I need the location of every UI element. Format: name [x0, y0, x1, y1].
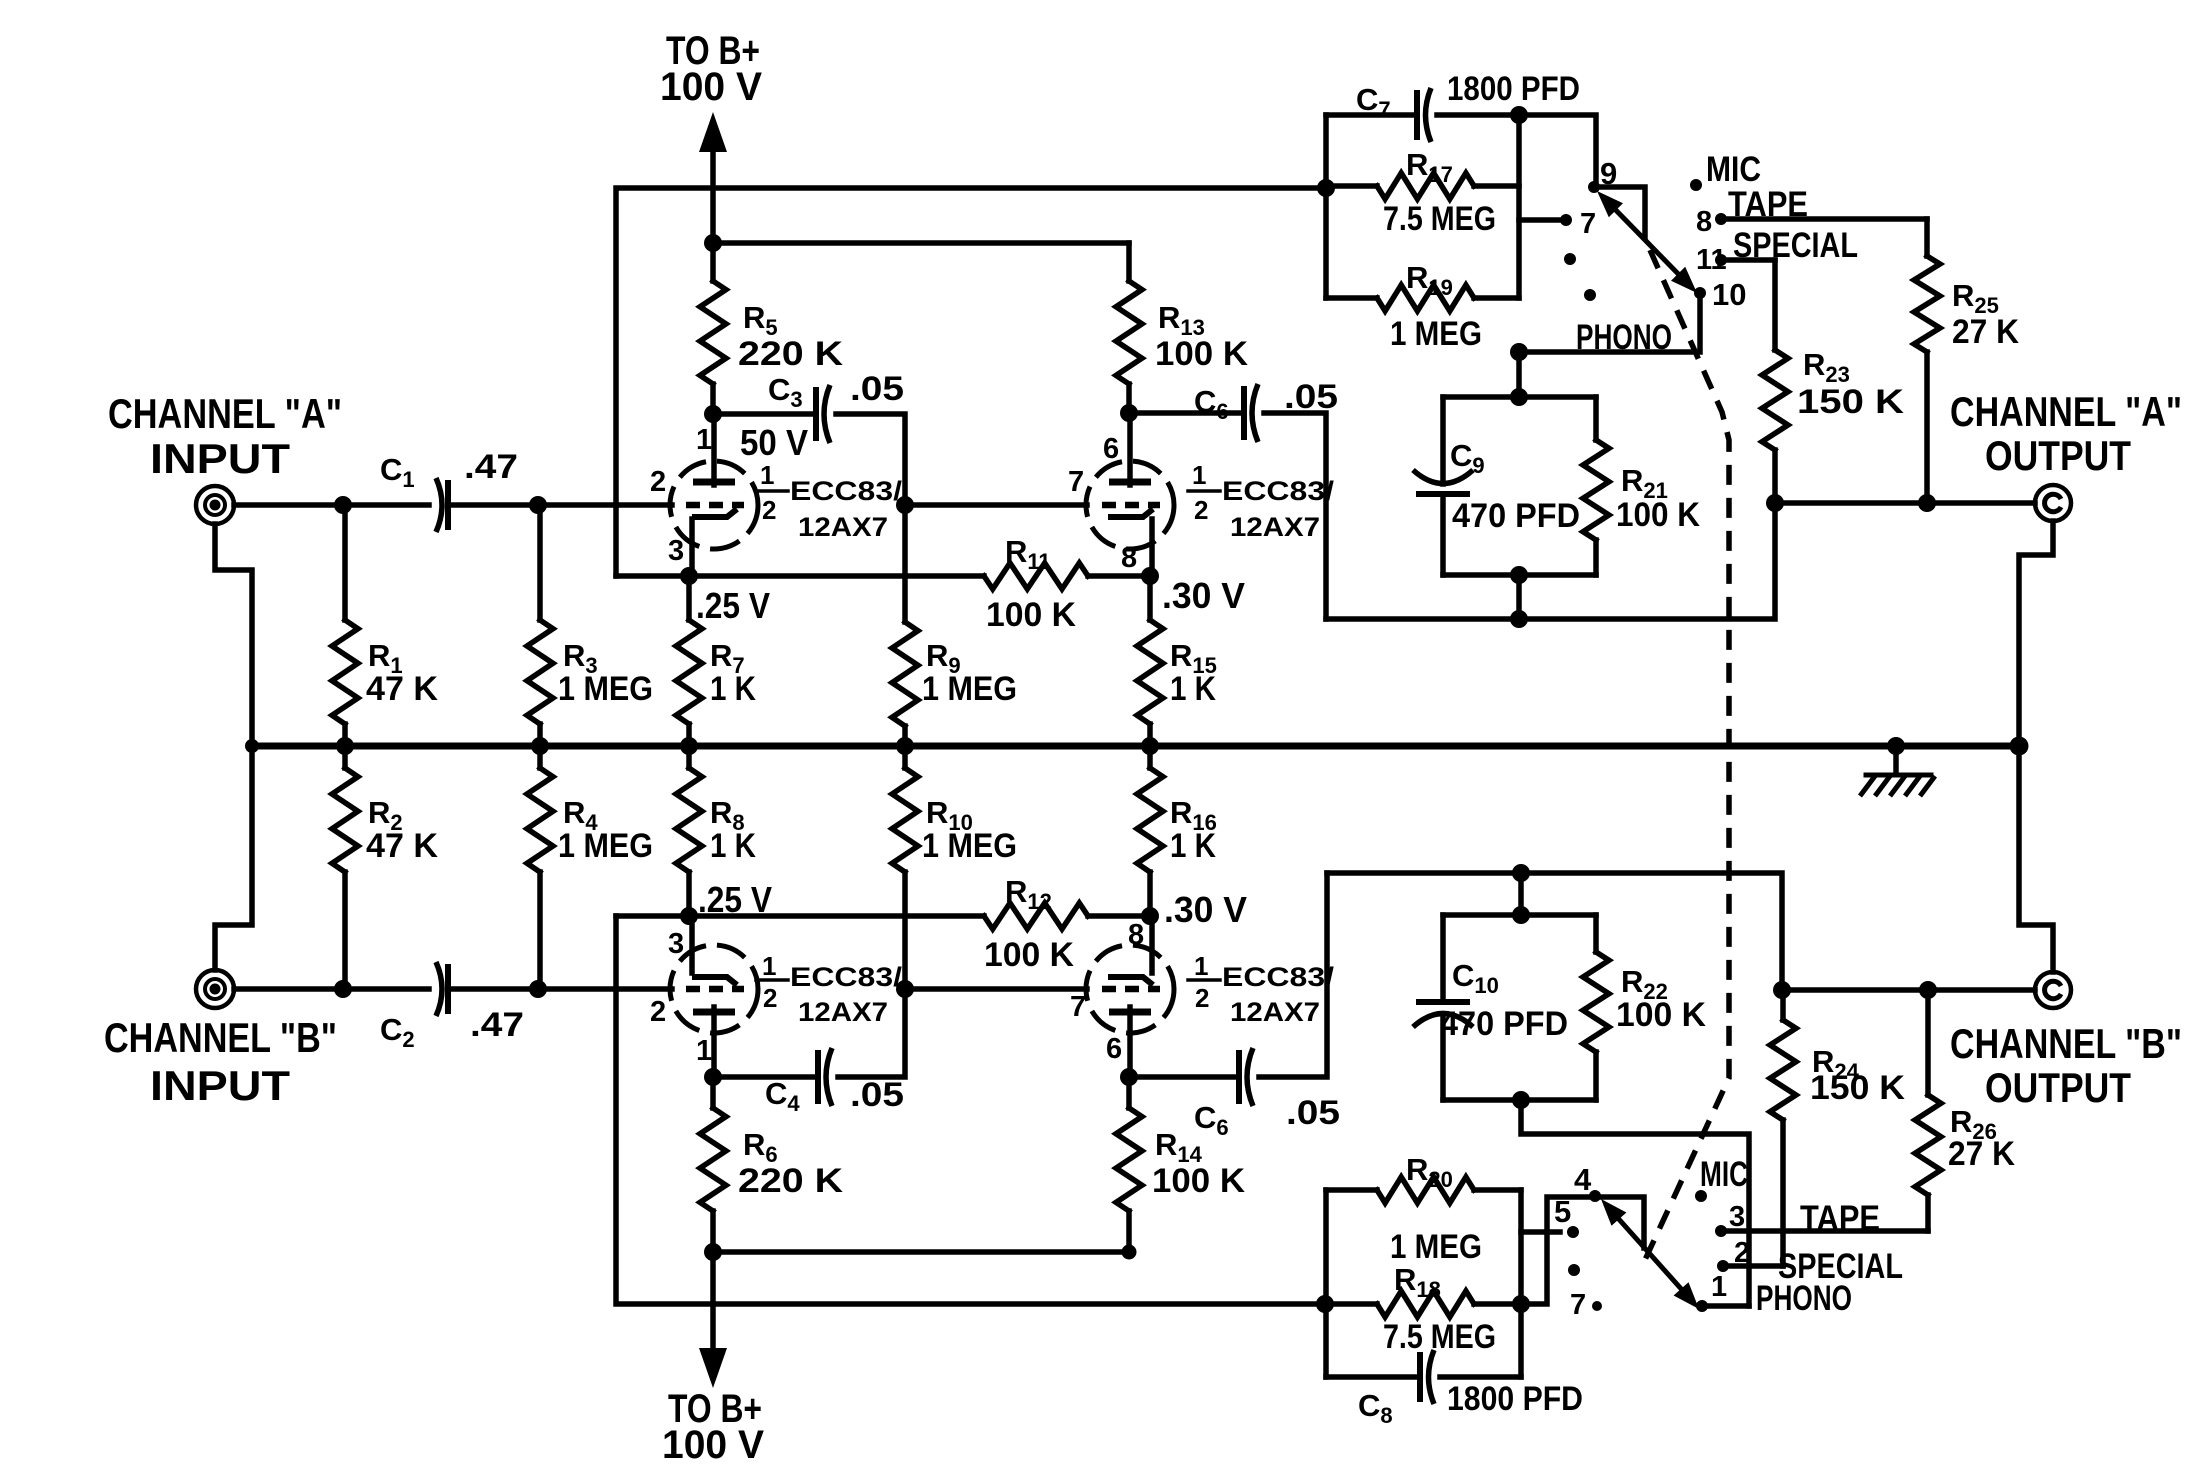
svg-text:1: 1	[762, 951, 776, 981]
wire input A to C1	[234, 502, 429, 508]
svg-text:7.5 MEG: 7.5 MEG	[1383, 200, 1496, 238]
wire V4 plate lead	[1127, 1007, 1133, 1077]
svg-text:1 K: 1 K	[710, 827, 756, 865]
wire ground bus	[252, 743, 2019, 750]
wire network A left rail	[1323, 115, 1329, 298]
resistor R18 7.5MEG	[1326, 1301, 1377, 1307]
svg-text:7: 7	[1068, 466, 1084, 498]
connector J4 channel B output	[2035, 972, 2071, 1008]
svg-text:1 MEG: 1 MEG	[922, 670, 1017, 708]
resistor R2 47K	[342, 746, 348, 768]
wire R18 to contact 4 and wiper	[1521, 1197, 1644, 1304]
node C10 box bottom	[1512, 1091, 1530, 1109]
node R18 right junction	[1512, 1295, 1530, 1313]
svg-text:2: 2	[1195, 983, 1209, 1013]
switch S1A contact 11 SPECIAL	[1715, 254, 1727, 266]
wire C2 to tube V3 grid	[448, 986, 672, 992]
resistor R9 1MEG	[902, 505, 908, 622]
wire output row A	[1775, 500, 2035, 506]
resistor R11 100K	[984, 563, 1088, 589]
wire V1 cathode lead	[689, 519, 695, 576]
wire top feedback rail	[616, 188, 1326, 576]
svg-text:1: 1	[1192, 460, 1206, 490]
resistor R15 1K	[1147, 576, 1153, 620]
svg-text:OUTPUT: OUTPUT	[1985, 432, 2131, 479]
svg-text:100 K: 100 K	[1616, 996, 1706, 1034]
svg-text:7: 7	[1570, 1289, 1586, 1321]
wire V4 cathode lead	[1149, 916, 1155, 973]
wire SPECIAL A	[1721, 257, 1775, 263]
wire upper row B	[1327, 873, 1782, 990]
wire lower row A	[1326, 503, 1775, 619]
switch S1B wiper arrow	[1608, 1207, 1692, 1301]
wire C4 to V4 grid node	[838, 989, 905, 1077]
wire contact 9 to wiper	[1594, 187, 1645, 238]
svg-text:50 V: 50 V	[740, 422, 808, 463]
svg-text:1 MEG: 1 MEG	[1390, 1228, 1482, 1266]
node R26 output junction	[1919, 981, 1937, 999]
wire output A shield jog	[2019, 521, 2053, 746]
switch S1A contact 10 PHONO	[1694, 287, 1706, 299]
svg-text:6: 6	[1103, 433, 1119, 465]
svg-text:1 MEG: 1 MEG	[558, 670, 653, 708]
svg-text:10: 10	[1712, 277, 1746, 312]
node R24 output junction	[1773, 981, 1791, 999]
tube V3 1/2 ECC83/12AX7	[670, 945, 758, 1033]
svg-text:2: 2	[650, 466, 666, 498]
wire V2 plate lead	[1127, 414, 1133, 485]
svg-text:2: 2	[650, 996, 666, 1028]
svg-text:27 K: 27 K	[1948, 1135, 2015, 1173]
svg-text:1 MEG: 1 MEG	[922, 827, 1017, 865]
wire network B right rail	[1518, 1190, 1524, 1377]
switch S1A contact MIC	[1690, 179, 1702, 191]
svg-text:2: 2	[762, 495, 776, 525]
node PHONO stem A	[1510, 343, 1528, 361]
switch S1B contact 4	[1589, 1190, 1601, 1202]
wire TAPE A	[1721, 216, 1927, 222]
svg-text:100 K: 100 K	[1616, 496, 1700, 534]
node C10 box top	[1512, 906, 1530, 924]
resistor R22 100K	[1593, 915, 1599, 952]
wire C10 box top side	[1443, 912, 1596, 918]
node B+ bottom junction	[704, 1243, 722, 1261]
svg-text:PHONO: PHONO	[1756, 1279, 1852, 1318]
svg-text:ECC83/: ECC83/	[1222, 476, 1335, 506]
svg-text:OUTPUT: OUTPUT	[1985, 1064, 2131, 1111]
wire bottom feedback rail	[616, 916, 1325, 1304]
svg-text:47 K: 47 K	[366, 827, 438, 865]
svg-text:CHANNEL "B": CHANNEL "B"	[104, 1014, 337, 1061]
svg-text:7: 7	[1580, 208, 1596, 240]
wire TAPE B	[1721, 1228, 1928, 1234]
resistor R14 100K	[1126, 1077, 1132, 1108]
switch S1B contact 1 PHONO	[1696, 1300, 1708, 1312]
switch S1A spare contacts	[1564, 253, 1576, 265]
node feedback rail / network A junction	[1317, 179, 1335, 197]
node V2 plate pin 6 junction	[1120, 404, 1138, 422]
wire grid V4	[905, 986, 1087, 992]
tube V1 1/2 ECC83/12AX7	[670, 461, 758, 549]
switch S1B contact 2 SPECIAL	[1717, 1260, 1729, 1272]
node ground junctions	[245, 739, 259, 753]
svg-text:100 V: 100 V	[660, 65, 762, 109]
svg-text:6: 6	[1106, 1033, 1122, 1065]
wire network B left rail	[1323, 1190, 1329, 1377]
svg-text:47 K: 47 K	[366, 670, 438, 708]
wire V1 plate lead	[711, 414, 717, 485]
svg-text:.05: .05	[850, 1076, 904, 1114]
wire stub to contact 7	[1519, 217, 1558, 223]
svg-text:220 K: 220 K	[738, 335, 844, 373]
tube V2 1/2 ECC83/12AX7	[1086, 461, 1174, 549]
node upper row B / C10 stem	[1512, 864, 1530, 882]
svg-text:3: 3	[1729, 1201, 1745, 1233]
svg-text:470 PFD: 470 PFD	[1440, 1005, 1568, 1043]
svg-text:470 PFD: 470 PFD	[1452, 497, 1580, 535]
resistor R19 1MEG	[1326, 295, 1377, 301]
svg-text:.47: .47	[470, 1006, 524, 1044]
switch S1A contact 8 TAPE	[1715, 213, 1727, 225]
ground symbol	[1893, 746, 1899, 772]
svg-text:CHANNEL "A": CHANNEL "A"	[108, 390, 342, 437]
node B+ top junction	[704, 234, 722, 252]
svg-text:220 K: 220 K	[738, 1162, 844, 1200]
resistor R7 1K	[686, 576, 692, 620]
wire stub to contact 5	[1521, 1229, 1560, 1235]
wire plate V4 to C6	[1129, 1074, 1239, 1080]
resistor R21 100K	[1593, 397, 1599, 440]
svg-text:MIC: MIC	[1706, 150, 1761, 189]
node input A junction	[334, 496, 352, 514]
capacitor C6 .05 (channel A)	[1241, 386, 1247, 440]
svg-text:12AX7: 12AX7	[798, 997, 888, 1027]
wire contact 1 stub	[1702, 1303, 1749, 1309]
wire C6 to lower row A	[1264, 413, 1326, 619]
wire plate V3 to C4	[713, 1074, 818, 1080]
svg-text:4: 4	[1574, 1162, 1592, 1197]
wire B+ row to R13	[713, 240, 1129, 246]
switch S1A contact 7	[1560, 214, 1572, 226]
svg-text:100 K: 100 K	[986, 596, 1076, 634]
svg-text:.25 V: .25 V	[698, 879, 772, 920]
wire plate V2 to C6	[1129, 410, 1244, 416]
wire C10 box stem top	[1518, 873, 1524, 915]
resistor R12 100K	[984, 903, 1088, 929]
wire C10 box bottom side	[1443, 1097, 1596, 1103]
svg-text:8: 8	[1696, 206, 1712, 238]
wire C9 box top	[1443, 394, 1596, 400]
svg-text:3: 3	[668, 928, 684, 960]
resistor R1 47K	[342, 505, 348, 620]
capacitor C9 470PFD	[1440, 397, 1446, 484]
svg-text:1: 1	[696, 424, 712, 456]
wire R11 to V2 cathode	[1088, 573, 1150, 579]
capacitor C4 .05	[815, 1050, 821, 1104]
capacitor C7 1800PFD	[1326, 112, 1417, 118]
switch S1B contact 3 TAPE	[1715, 1225, 1727, 1237]
node lower row A / C9 stem	[1510, 610, 1528, 628]
wire output B shield jog	[2019, 746, 2053, 972]
svg-text:.30 V: .30 V	[1164, 889, 1247, 930]
wire SPECIAL B	[1723, 1263, 1783, 1269]
node R25 output junction	[1918, 494, 1936, 512]
svg-text:ECC83/: ECC83/	[1222, 962, 1335, 992]
wire C6 to upper row B	[1259, 873, 1327, 1077]
connector J2 channel B input	[196, 970, 234, 1008]
wire C1 to tube V1 grid	[448, 502, 672, 508]
node V4 grid junction	[896, 980, 914, 998]
capacitor C8 1800PFD	[1326, 1374, 1420, 1380]
svg-text:7.5 MEG: 7.5 MEG	[1383, 1318, 1496, 1356]
wire C10 box to PHONO B	[1521, 1100, 1749, 1306]
switch gang dashed link	[1644, 250, 1729, 1262]
wire grid V2	[905, 502, 1087, 508]
svg-text:1 K: 1 K	[1170, 827, 1216, 865]
node R3 junction	[529, 496, 547, 514]
capacitor C2	[445, 964, 451, 1014]
svg-text:2: 2	[763, 983, 777, 1013]
wire V3 plate lead	[711, 1007, 717, 1077]
wire input B shield jog	[215, 746, 252, 970]
svg-text:100 K: 100 K	[984, 936, 1074, 974]
svg-text:INPUT: INPUT	[150, 435, 290, 482]
resistor R4 1MEG	[537, 746, 543, 768]
node R23 output junction	[1766, 494, 1784, 512]
resistor R6 220K	[710, 1077, 716, 1108]
connector J3 channel A output	[2035, 485, 2071, 521]
node input B junction	[334, 980, 352, 998]
resistor R13 100K	[1126, 243, 1132, 281]
wire C9 box stem to lower row	[1516, 575, 1522, 619]
tube V4 1/2 ECC83/12AX7	[1086, 945, 1174, 1033]
switch S1B contact 5	[1567, 1226, 1579, 1238]
svg-text:5: 5	[1554, 1194, 1571, 1229]
svg-text:2: 2	[1194, 495, 1208, 525]
svg-text:INPUT: INPUT	[150, 1062, 290, 1109]
svg-text:1 MEG: 1 MEG	[558, 827, 653, 865]
svg-text:1: 1	[1711, 1271, 1727, 1303]
resistor R24 150K	[1780, 1120, 1786, 1266]
svg-text:1 K: 1 K	[1170, 670, 1216, 708]
svg-text:ECC83/: ECC83/	[790, 476, 903, 506]
resistor R16 1K	[1147, 746, 1153, 768]
switch S1A contact 9	[1588, 181, 1600, 193]
wire V2 cathode lead	[1149, 519, 1155, 576]
resistor R23 150K	[1772, 260, 1778, 350]
svg-text:.25 V: .25 V	[696, 585, 770, 626]
svg-text:12AX7: 12AX7	[1230, 512, 1320, 542]
node V2 cathode pin 8 (.30V)	[1141, 567, 1159, 585]
capacitor C3 .05	[813, 387, 819, 441]
resistor R8 1K	[686, 746, 692, 768]
svg-text:1: 1	[696, 1035, 712, 1067]
node V4 plate pin 6 junction	[1120, 1068, 1138, 1086]
svg-text:27 K: 27 K	[1952, 313, 2019, 351]
svg-text:12AX7: 12AX7	[798, 512, 888, 542]
node V4 cathode pin 8 (.30V)	[1141, 907, 1159, 925]
node C9 box bottom	[1510, 566, 1528, 584]
svg-text:1 K: 1 K	[710, 670, 756, 708]
node V1 cathode (.25V)	[680, 567, 698, 585]
svg-text:1800 PFD: 1800 PFD	[1447, 70, 1580, 108]
svg-text:100 V: 100 V	[662, 1423, 764, 1467]
svg-text:150 K: 150 K	[1810, 1069, 1905, 1107]
node feedback rail / network B junction	[1316, 1295, 1334, 1313]
wire C3 to V2 grid node	[836, 414, 905, 505]
node R14 bottom junction	[1122, 1245, 1137, 1260]
connector J1 channel A input	[196, 486, 234, 524]
svg-text:7: 7	[1070, 991, 1086, 1023]
svg-text:100 K: 100 K	[1152, 1162, 1245, 1200]
resistor R25 27K	[1924, 219, 1930, 256]
wire C9 box bottom	[1443, 572, 1596, 578]
svg-text:CHANNEL "A": CHANNEL "A"	[1950, 388, 2182, 435]
node V3 plate junction	[704, 1068, 722, 1086]
resistor R26 27K	[1925, 1195, 1931, 1231]
capacitor C1	[445, 480, 451, 530]
node C7 right rail junction	[1510, 106, 1528, 124]
switch S1A wiper arrow	[1604, 198, 1690, 286]
svg-text:1: 1	[760, 460, 774, 490]
wire plate to C3	[713, 411, 816, 417]
wire input A shield jog	[215, 524, 252, 746]
wire input B to C2	[234, 986, 429, 992]
svg-text:ECC83/: ECC83/	[790, 962, 903, 992]
wire PHONO A to C9 box	[1519, 293, 1700, 397]
wire output row B	[1782, 987, 2035, 993]
resistor R5 220K	[710, 243, 716, 281]
node V2 grid junction	[896, 496, 914, 514]
node R4 junction	[529, 980, 547, 998]
svg-text:.47: .47	[464, 448, 518, 486]
resistor R17 7.5MEG	[1326, 183, 1377, 189]
svg-text:100 K: 100 K	[1155, 335, 1248, 373]
svg-text:1: 1	[1194, 951, 1208, 981]
wire V3 cathode lead	[689, 916, 695, 973]
svg-text:.05: .05	[1286, 1094, 1340, 1132]
svg-text:1800 PFD: 1800 PFD	[1447, 1380, 1583, 1418]
resistor R10 1MEG	[902, 746, 908, 768]
wire cathode row B left	[616, 913, 984, 919]
svg-text:.30 V: .30 V	[1162, 575, 1245, 616]
svg-text:3: 3	[668, 535, 684, 567]
wire R12 to V4 cathode	[1088, 913, 1150, 919]
svg-text:MIC: MIC	[1700, 1155, 1748, 1194]
wire cathode row A left	[616, 573, 984, 579]
capacitor C10 470PFD	[1440, 915, 1446, 1001]
node V3 cathode (.25V)	[680, 907, 698, 925]
resistor R3 1MEG	[537, 505, 543, 620]
wire network A right rail	[1516, 115, 1522, 298]
node C9 box top	[1510, 388, 1528, 406]
svg-text:1 MEG: 1 MEG	[1390, 315, 1482, 353]
switch S1B spare contact	[1568, 1264, 1580, 1276]
node V1 plate junction (50V)	[704, 405, 722, 423]
svg-text:CHANNEL "B": CHANNEL "B"	[1950, 1020, 2182, 1067]
wire B+ bottom row to R14	[713, 1249, 1129, 1255]
switch S1B contact MIC	[1695, 1190, 1707, 1202]
resistor R20 1MEG	[1326, 1187, 1377, 1193]
capacitor C6 .05 (channel B)	[1236, 1050, 1242, 1104]
svg-text:12AX7: 12AX7	[1230, 997, 1320, 1027]
svg-text:.05: .05	[850, 370, 904, 408]
svg-text:150 K: 150 K	[1797, 383, 1905, 421]
